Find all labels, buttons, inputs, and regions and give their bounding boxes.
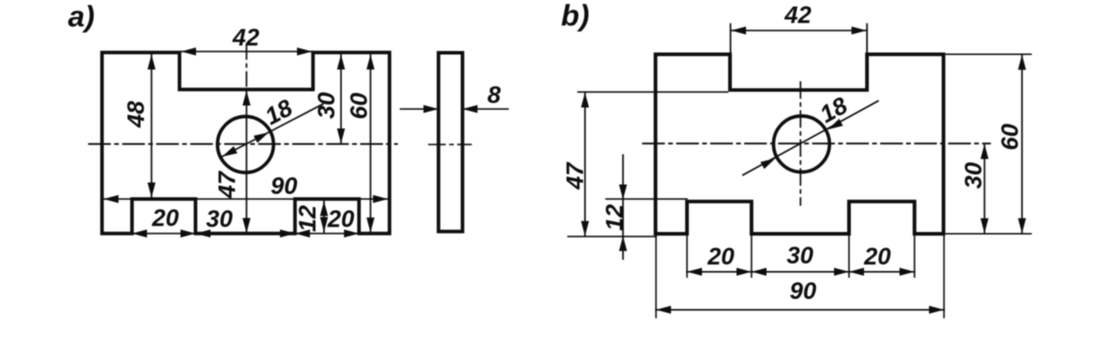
extension line bottom-left view b — [568, 236, 656, 238]
extension lines right side view b — [946, 54, 1031, 234]
svg-text:90: 90 — [271, 173, 298, 200]
centerline horizontal view b — [643, 143, 990, 145]
dimension 47 line (on vertical centerline) — [246, 91, 248, 233]
extension lines below part view b — [687, 235, 915, 277]
dimension 42 extension lines view b — [731, 24, 868, 53]
dimension 8 leader left — [401, 108, 437, 110]
svg-text:90: 90 — [790, 278, 817, 305]
svg-text:8: 8 — [487, 82, 501, 109]
diameter 18 leader line view b — [743, 101, 878, 175]
svg-text:47: 47 — [214, 170, 241, 199]
svg-text:30: 30 — [960, 162, 987, 189]
svg-text:a): a) — [68, 1, 95, 34]
svg-text:30: 30 — [313, 92, 340, 119]
dimension 42 line view b — [731, 30, 867, 32]
side view centerline — [429, 144, 471, 146]
extension line notch-bottom level view b — [578, 91, 728, 93]
svg-text:48: 48 — [123, 100, 150, 128]
svg-text:20: 20 — [327, 206, 355, 233]
extension line notch-top level view b — [606, 198, 687, 200]
svg-text:60: 60 — [997, 123, 1024, 150]
dimension 60 line view a — [370, 55, 372, 233]
side view rectangle (thickness) — [439, 53, 463, 232]
svg-text:12: 12 — [294, 205, 321, 232]
svg-text:20: 20 — [151, 205, 179, 232]
centerline vertical view a (in top notch) — [246, 45, 248, 88]
dimension 12 line view a — [323, 200, 325, 233]
part outline view b — [656, 54, 944, 234]
dimension 30 line (right side view a) — [340, 55, 342, 144]
dimension 90 line view b — [656, 309, 944, 311]
diameter 18 leader line view a — [222, 104, 323, 157]
part outline view a — [102, 53, 390, 234]
dimension 30 line view b — [984, 144, 986, 233]
dimension 90 line view a — [103, 198, 389, 200]
dimension 12 line view b — [622, 155, 624, 259]
dimension 42 line — [181, 51, 312, 53]
svg-text:30: 30 — [206, 206, 233, 233]
svg-text:20: 20 — [863, 243, 891, 270]
centerline vertical view b — [800, 82, 802, 205]
dimension 60 line view b — [1021, 55, 1023, 233]
svg-text:b): b) — [561, 0, 589, 33]
circle (hole d18) view b — [774, 116, 830, 172]
svg-text:42: 42 — [232, 25, 260, 52]
dimension 48 line — [151, 55, 153, 198]
svg-text:12: 12 — [601, 204, 628, 231]
svg-text:47: 47 — [562, 161, 589, 190]
svg-text:42: 42 — [784, 2, 812, 29]
dimension 47 line view b — [584, 93, 586, 237]
circle (hole d18) view a — [218, 117, 274, 173]
bottom dimension line 20/30/20 view b — [687, 271, 915, 273]
svg-text:30: 30 — [787, 242, 814, 269]
svg-text:60: 60 — [346, 92, 373, 119]
centerline horizontal view a — [89, 143, 397, 145]
dimension 8 leader right — [465, 108, 508, 110]
svg-text:20: 20 — [707, 243, 735, 270]
bottom dimension line 20/30/20 view a — [132, 233, 359, 235]
